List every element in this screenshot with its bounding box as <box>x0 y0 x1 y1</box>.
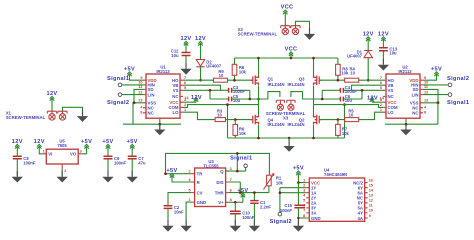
svg-text:IRLZ44N: IRLZ44N <box>268 82 285 87</box>
svg-text:2: 2 <box>184 103 186 107</box>
svg-text:10u: 10u <box>389 51 397 56</box>
svg-text:IRLZ44N: IRLZ44N <box>268 122 285 127</box>
svg-text:X3: X3 <box>283 115 289 120</box>
svg-text:LO: LO <box>388 110 395 115</box>
svg-text:Signal2: Signal2 <box>270 219 292 225</box>
svg-text:10: 10 <box>424 81 428 85</box>
svg-text:10u: 10u <box>171 53 179 58</box>
svg-text:1: 1 <box>43 150 45 154</box>
svg-text:5: 5 <box>184 86 186 90</box>
svg-text:12V: 12V <box>367 96 378 102</box>
svg-text:1: 1 <box>303 178 305 182</box>
svg-text:VS: VS <box>388 88 394 93</box>
svg-text:GND: GND <box>311 216 321 221</box>
svg-text:6: 6 <box>184 81 186 85</box>
svg-text:13: 13 <box>424 99 428 103</box>
svg-text:1: 1 <box>188 198 190 202</box>
svg-text:16: 16 <box>369 178 373 182</box>
svg-text:10u: 10u <box>233 98 241 103</box>
svg-text:2: 2 <box>188 170 190 174</box>
svg-text:TLC555: TLC555 <box>203 164 219 169</box>
svg-text:10nF: 10nF <box>174 210 184 215</box>
svg-text:UF4007: UF4007 <box>347 54 363 59</box>
svg-text:100nF: 100nF <box>114 161 127 166</box>
svg-text:10: 10 <box>219 73 224 78</box>
svg-text:2.2nF: 2.2nF <box>260 205 271 210</box>
svg-text:2: 2 <box>303 184 305 188</box>
svg-text:10u: 10u <box>345 98 353 103</box>
svg-text:15: 15 <box>369 184 373 188</box>
svg-text:10k: 10k <box>342 131 350 136</box>
svg-text:10k: 10k <box>239 131 247 136</box>
svg-text:10: 10 <box>217 112 222 117</box>
svg-text:3: 3 <box>230 167 232 171</box>
svg-text:Signal2: Signal2 <box>447 76 469 82</box>
svg-text:8: 8 <box>303 214 305 218</box>
svg-text:NC: NC <box>412 111 418 116</box>
svg-text:8: 8 <box>140 111 142 115</box>
svg-text:IRLZ44N: IRLZ44N <box>288 122 305 127</box>
svg-text:GND: GND <box>197 200 207 205</box>
svg-text:9: 9 <box>424 76 426 80</box>
svg-text:3: 3 <box>303 189 305 193</box>
svg-text:100nF: 100nF <box>23 161 36 166</box>
svg-text:10k: 10k <box>276 180 284 185</box>
svg-text:8: 8 <box>230 198 232 202</box>
svg-text:74HC4049N: 74HC4049N <box>324 172 347 177</box>
svg-text:9: 9 <box>140 76 142 80</box>
svg-text:10: 10 <box>349 112 354 117</box>
svg-text:12: 12 <box>369 199 373 203</box>
svg-text:9: 9 <box>369 214 371 218</box>
svg-text:11: 11 <box>424 85 428 89</box>
svg-text:12V: 12V <box>191 95 202 101</box>
svg-text:1: 1 <box>184 108 186 112</box>
svg-text:NC: NC <box>172 94 178 99</box>
svg-text:7: 7 <box>303 209 305 213</box>
svg-text:TR: TR <box>197 172 204 177</box>
svg-text:7: 7 <box>184 76 186 80</box>
svg-text:5: 5 <box>380 86 382 90</box>
svg-text:100nF: 100nF <box>280 208 293 213</box>
svg-text:NC: NC <box>388 94 394 99</box>
svg-text:10k: 10k <box>239 70 247 75</box>
svg-text:THR: THR <box>215 190 225 195</box>
svg-text:LIN: LIN <box>412 92 419 97</box>
svg-text:VS: VS <box>173 88 179 93</box>
svg-text:2: 2 <box>64 169 66 173</box>
svg-text:13: 13 <box>138 99 142 103</box>
svg-text:Signal2: Signal2 <box>107 100 129 106</box>
svg-text:VCC: VCC <box>281 5 294 11</box>
svg-text:V+: V+ <box>218 200 224 205</box>
svg-text:LIN: LIN <box>148 92 155 97</box>
svg-text:CV: CV <box>197 190 203 195</box>
svg-text:10: 10 <box>369 209 373 213</box>
svg-text:10: 10 <box>138 81 142 85</box>
svg-text:NC: NC <box>148 111 154 116</box>
svg-text:LO: LO <box>173 110 180 115</box>
svg-text:13: 13 <box>369 194 373 198</box>
svg-text:SCREW-TERMINAL: SCREW-TERMINAL <box>238 31 278 36</box>
svg-text:5: 5 <box>303 199 305 203</box>
svg-text:12: 12 <box>138 90 142 94</box>
svg-text:Signal1: Signal1 <box>447 100 469 106</box>
svg-text:6: 6 <box>230 188 232 192</box>
svg-text:Signal1: Signal1 <box>230 156 252 162</box>
svg-text:SCREW-TERMINAL: SCREW-TERMINAL <box>6 115 46 120</box>
svg-text:5: 5 <box>188 188 190 192</box>
svg-text:Signal1: Signal1 <box>107 76 129 82</box>
svg-text:12: 12 <box>424 90 428 94</box>
svg-text:4A: 4A <box>358 216 364 221</box>
svg-text:3: 3 <box>80 150 82 154</box>
svg-text:7: 7 <box>380 76 382 80</box>
svg-text:IRLZ44N: IRLZ44N <box>288 82 305 87</box>
svg-text:DIS: DIS <box>216 180 223 185</box>
svg-text:11: 11 <box>369 204 373 208</box>
svg-text:2: 2 <box>380 103 382 107</box>
svg-text:47u: 47u <box>138 161 146 166</box>
svg-text:1: 1 <box>380 108 382 112</box>
svg-text:7805: 7805 <box>57 143 67 148</box>
svg-text:100nF: 100nF <box>242 215 255 220</box>
svg-text:IR2113: IR2113 <box>398 69 412 74</box>
svg-text:10: 10 <box>350 71 355 76</box>
svg-text:VI: VI <box>48 152 52 157</box>
svg-text:8: 8 <box>424 111 426 115</box>
svg-text:6: 6 <box>380 81 382 85</box>
svg-text:7: 7 <box>230 178 232 182</box>
svg-text:10k: 10k <box>341 71 349 76</box>
svg-text:11: 11 <box>138 85 142 89</box>
svg-text:VO: VO <box>70 152 77 157</box>
svg-text:IR2113: IR2113 <box>156 69 170 74</box>
